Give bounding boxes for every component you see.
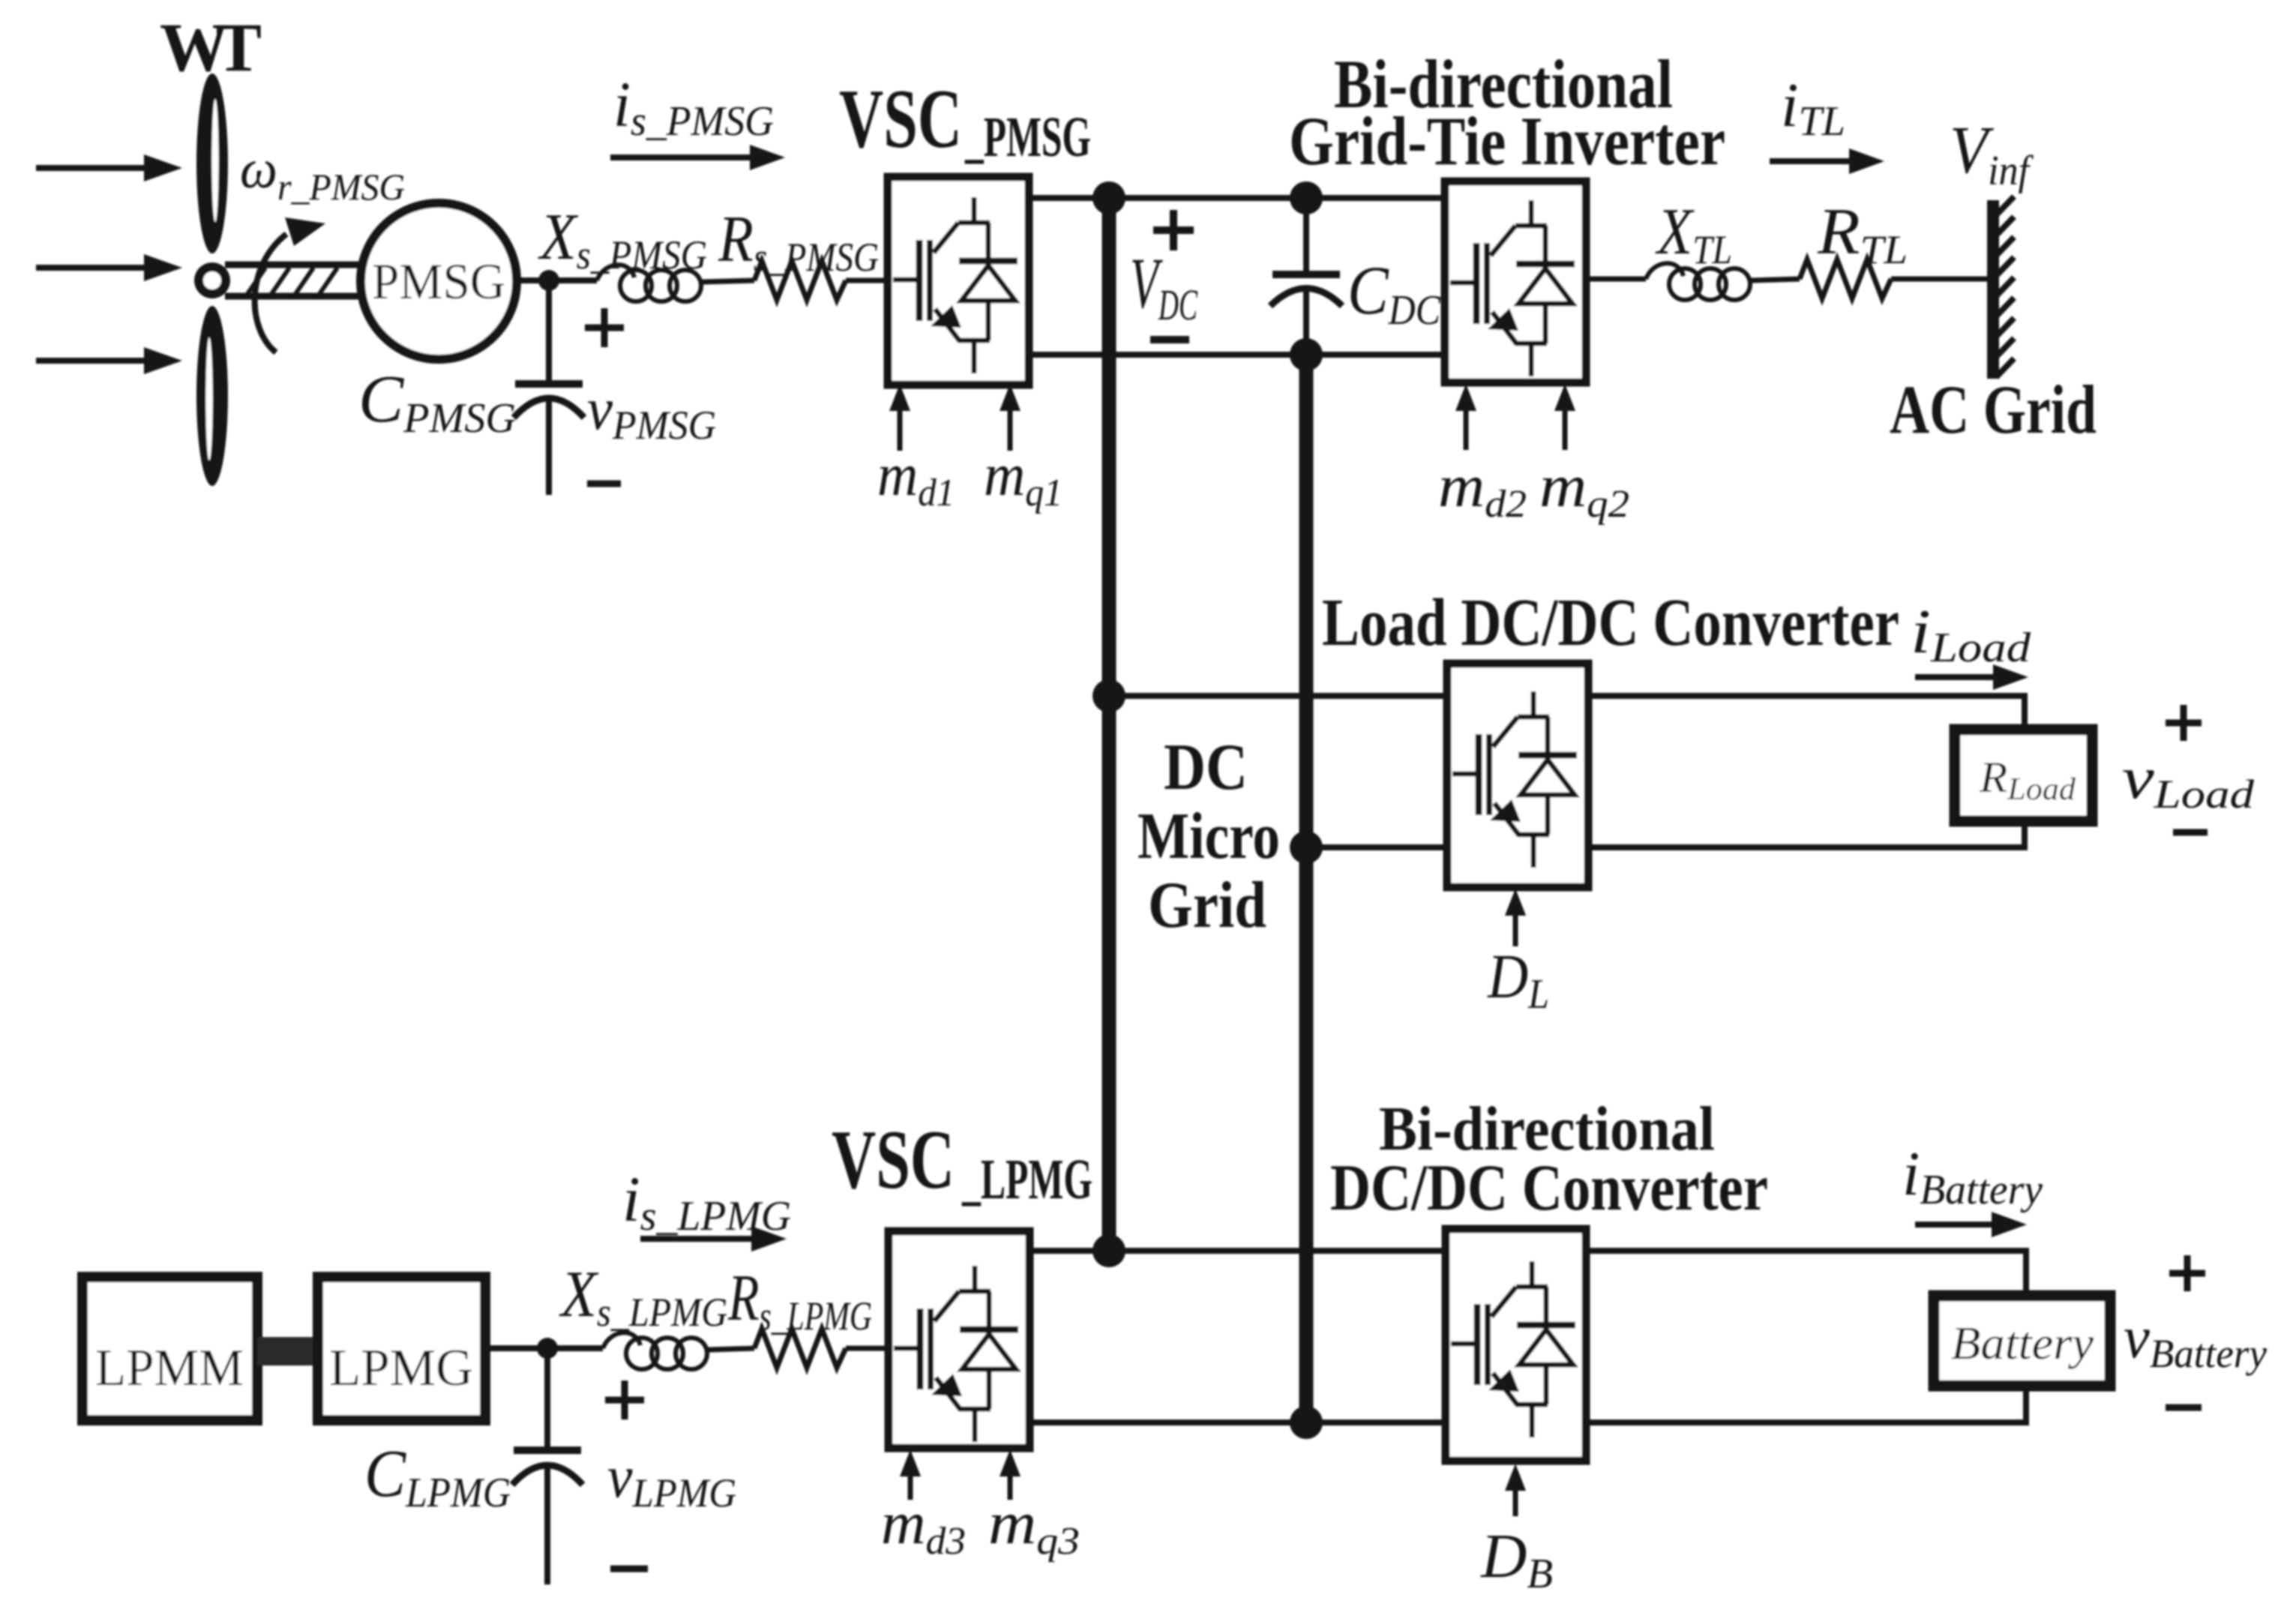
converter VSC_PMSG (888, 177, 1029, 385)
wire battery top right (1586, 1251, 2026, 1299)
wire resistor to VSC_LPMG (846, 1346, 889, 1351)
coupling shaft (257, 1337, 318, 1366)
converter Bi-directional DC/DC (1446, 1229, 1586, 1461)
wire load top right (1588, 696, 2025, 733)
turbine shaft (hatched) (225, 265, 361, 296)
svg-text:Micro: Micro (1138, 800, 1280, 873)
node load top wire / left bus (1093, 679, 1126, 712)
node top rail / left bus (1093, 181, 1126, 214)
svg-text:_LPMG: _LPMG (961, 1148, 1093, 1211)
wire load bottom left (1306, 844, 1447, 850)
arrow m_q3 (1000, 1450, 1021, 1500)
converter Load DC/DC (1447, 664, 1588, 887)
wind turbine blade lower (196, 306, 228, 486)
wire R_TL to AC grid (1891, 277, 1989, 282)
turbine hub (194, 262, 230, 298)
arrow D_L (1505, 889, 1526, 946)
AC grid bus bar (1993, 196, 2014, 379)
current arrow i_Battery (1915, 1212, 2027, 1237)
wire PMSG to node (517, 277, 597, 283)
wire load top left (1109, 693, 1447, 699)
capacitor C_PMSG (514, 280, 584, 495)
DC micro grid left bus (1102, 198, 1117, 1251)
wire battery top rail (1030, 1248, 1446, 1254)
current arrow i_s_PMSG (610, 145, 785, 170)
wind arrow 2 (36, 254, 182, 281)
resistor R_s_LPMG (754, 1329, 846, 1368)
svg-text:Grid-Tie Inverter: Grid-Tie Inverter (1289, 103, 1725, 179)
current arrow i_s_LPMG (640, 1226, 787, 1252)
resistor R_s_PMSG (754, 261, 846, 300)
node top rail / C_DC (1290, 181, 1323, 214)
svg-text:_PMSG: _PMSG (964, 106, 1091, 169)
Battery box (1934, 1296, 2110, 1386)
svg-text:LPMM: LPMM (95, 1339, 244, 1397)
plus v_Battery (2169, 1255, 2205, 1291)
svg-text:Battery: Battery (1951, 1318, 2094, 1369)
node at PMSG terminal (538, 270, 559, 291)
resistor R_TL (1800, 259, 1891, 298)
node load bottom wire / right bus (1290, 831, 1323, 864)
wire battery bottom rail (1030, 1420, 1446, 1426)
svg-text:PMSG: PMSG (372, 253, 505, 310)
minus v_LPMG (610, 1566, 648, 1573)
svg-text:Grid: Grid (1148, 869, 1266, 942)
svg-text:AC Grid: AC Grid (1890, 371, 2097, 448)
node at LPMG terminal (537, 1338, 558, 1359)
plus v_PMSG (585, 308, 624, 347)
wire inverter to X_TL (1586, 277, 1646, 282)
inductor X_s_PMSG (597, 265, 701, 301)
node battery top rail / left bus end (1093, 1234, 1126, 1267)
wind arrow 1 (36, 154, 182, 181)
plus V_DC (1153, 210, 1194, 250)
plus v_Load (2166, 705, 2202, 741)
machine LPMM box (82, 1277, 257, 1420)
wire DC top rail (1029, 195, 1445, 201)
wire LPMG to coil (485, 1345, 603, 1351)
plus v_LPMG (605, 1381, 644, 1420)
svg-text:Load DC/DC Converter: Load DC/DC Converter (1322, 586, 1899, 660)
label DC Micro Grid (1138, 731, 1280, 942)
wire X_TL to R_TL (1751, 279, 1800, 280)
minus v_Battery (2166, 1405, 2202, 1411)
inductor X_s_LPMG (603, 1333, 707, 1369)
current arrow i_TL (1770, 148, 1884, 174)
svg-text:VSC: VSC (839, 73, 962, 166)
svg-text:DC: DC (1164, 731, 1248, 804)
wire coil to resistor (702, 280, 754, 282)
arrow m_q2 (1554, 384, 1575, 450)
capacitor C_DC (1270, 198, 1342, 355)
svg-text:DC/DC Converter: DC/DC Converter (1330, 1152, 1768, 1225)
wire resistor to VSC_PMSG (846, 278, 888, 283)
wind arrow 3 (36, 347, 182, 374)
wire coil to resistor (708, 1348, 754, 1350)
inductor X_TL (1646, 263, 1750, 300)
node bottom rail / right bus (1290, 338, 1323, 371)
converter VSC_LPMG (889, 1231, 1030, 1448)
rotation arrow (255, 217, 325, 352)
node battery bottom rail / right bus end (1290, 1406, 1323, 1439)
generator LPMG box (318, 1277, 485, 1420)
arrow m_d3 (900, 1450, 921, 1500)
wire DC bottom rail (1029, 352, 1445, 358)
arrow m_d2 (1455, 384, 1476, 450)
minus v_Load (2173, 829, 2208, 836)
wire battery bottom right (1586, 1383, 2026, 1423)
converter Grid-Tie Inverter (1445, 181, 1586, 382)
arrow D_B (1505, 1464, 1526, 1516)
load resistor R_Load box (1955, 730, 2092, 821)
arrow m_q1 (1000, 384, 1021, 451)
current arrow i_Load (1915, 664, 2028, 690)
arrow m_d1 (889, 384, 910, 451)
DC micro grid right bus (1299, 355, 1314, 1423)
capacitor C_LPMG (512, 1348, 583, 1585)
wind turbine blade upper (196, 73, 228, 253)
minus V_DC (1150, 336, 1189, 343)
generator PMSG (361, 203, 517, 359)
wire load bottom right (1588, 818, 2025, 847)
svg-text:LPMG: LPMG (329, 1339, 473, 1397)
svg-text:VSC: VSC (832, 1114, 955, 1207)
minus v_PMSG (587, 481, 621, 487)
